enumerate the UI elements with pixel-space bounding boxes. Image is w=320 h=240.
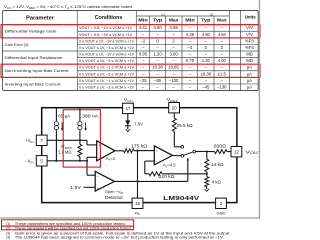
- svg-text:17: 17: [125, 106, 131, 111]
- svg-text:2: 2: [220, 201, 223, 206]
- svg-text:V/V: V/V: [246, 25, 253, 30]
- svg-text:+: +: [156, 149, 158, 153]
- svg-text:4.00: 4.00: [218, 58, 227, 63]
- svg-text:Differential Voltage Gain: Differential Voltage Gain: [5, 29, 57, 34]
- svg-text:Non-Inverting Input Bias Curre: Non-Inverting Input Bias Current: [5, 68, 70, 73]
- svg-text:−65: −65: [154, 78, 162, 83]
- svg-text:µA: µA: [247, 71, 252, 76]
- svg-text:Max: Max: [217, 17, 227, 22]
- svg-text:0 ≤ VOUT ≤ 1V, −1 ≤ VCM ≤ +1V: 0 ≤ VOUT ≤ 1V, −1 ≤ VCM ≤ +1V: [79, 66, 134, 70]
- svg-text:VOUT = 0.5, −3V ≤ VCM ≤ +1V: VOUT = 0.5, −3V ≤ VCM ≤ +1V: [79, 33, 132, 37]
- svg-text:1.20: 1.20: [154, 52, 163, 57]
- svg-text:3.00: 3.00: [170, 52, 179, 57]
- svg-text:220 kΩ: 220 kΩ: [159, 174, 175, 179]
- svg-text:0 ≤ VOUT ≤ 1V, −3 ≤ VCM ≤ +1V: 0 ≤ VOUT ≤ 1V, −3 ≤ VCM ≤ +1V: [79, 59, 134, 63]
- svg-text:5: 5: [40, 159, 43, 164]
- svg-text:−100: −100: [169, 78, 179, 83]
- svg-text:1.5V: 1.5V: [70, 185, 81, 190]
- svg-text:26.5 kΩ: 26.5 kΩ: [177, 123, 193, 128]
- svg-text:MΩ: MΩ: [246, 58, 253, 63]
- svg-text:Inverting Input Bias Current: Inverting Input Bias Current: [5, 81, 62, 86]
- svg-text:0 ≤ VOUT ≤ 1V, −3 ≤ VCM ≤ +1V: 0 ≤ VOUT ≤ 1V, −3 ≤ VCM ≤ +1V: [79, 72, 134, 76]
- svg-text:VOUT = 0.5, −1V ≤ VCM ≤ +1V: VOUT = 0.5, −1V ≤ VCM ≤ +1V: [79, 26, 132, 30]
- svg-text:Differential Input Resistance: Differential Input Resistance: [5, 55, 64, 60]
- svg-text:0 ≤ VOUT ≤ 1V, −3 ≤ VCM ≤ +1V: 0 ≤ VOUT ≤ 1V, −3 ≤ VCM ≤ +1V: [79, 46, 134, 50]
- svg-text:20: 20: [172, 105, 178, 110]
- svg-text:−25: −25: [139, 78, 147, 83]
- svg-text:The LM9044 has been designed t: The LM9044 has been designed to common-m…: [15, 235, 224, 239]
- svg-text:7: 7: [40, 138, 43, 143]
- svg-text:4.50: 4.50: [154, 25, 163, 30]
- svg-text:−: −: [156, 160, 158, 164]
- svg-text:%FS: %FS: [245, 38, 254, 43]
- svg-text:MΩ: MΩ: [246, 52, 253, 57]
- svg-text:VCC = 12V, VREF = 5V, −40°C ≤: VCC = 12V, VREF = 5V, −40°C ≤ TA ≤ 125°C…: [4, 4, 132, 10]
- svg-text:0 ≤ VOUT ≤ 1V, −1V ≤ VCM ≤ +1V: 0 ≤ VOUT ≤ 1V, −1V ≤ VCM ≤ +1V: [79, 39, 134, 43]
- svg-text:7.5V: 7.5V: [134, 122, 143, 127]
- svg-text:Typ: Typ: [201, 17, 211, 22]
- svg-text:1.20: 1.20: [202, 58, 211, 63]
- svg-text:GND: GND: [217, 210, 226, 215]
- svg-text:1.2 MΩ: 1.2 MΩ: [58, 149, 72, 154]
- svg-text:0 ≤ VOUT ≤ 1V, −3 ≤ VCM ≤ +1V: 0 ≤ VOUT ≤ 1V, −3 ≤ VCM ≤ +1V: [79, 85, 134, 89]
- svg-text:µA: µA: [247, 78, 252, 83]
- svg-text:4.59: 4.59: [170, 25, 179, 30]
- svg-text:200Ω: 200Ω: [214, 144, 227, 149]
- svg-text:Detector: Detector: [105, 195, 124, 200]
- svg-text:0 ≤ VOUT ≤ 1V, −1 ≤ VCM ≤ +1V: 0 ≤ VOUT ≤ 1V, −1 ≤ VCM ≤ +1V: [79, 79, 134, 83]
- svg-text:4.41: 4.41: [139, 25, 148, 30]
- svg-text:Gain Error (3): Gain Error (3): [5, 42, 30, 47]
- svg-text:12: 12: [234, 149, 240, 154]
- svg-text:Min: Min: [185, 17, 195, 22]
- svg-text:0.70: 0.70: [186, 58, 195, 63]
- svg-text:0.95: 0.95: [139, 52, 148, 57]
- svg-text:±0.85: ±0.85: [168, 65, 179, 70]
- svg-text:µA: µA: [247, 84, 252, 89]
- svg-text:(2): (2): [210, 12, 214, 16]
- svg-text:Min: Min: [138, 17, 148, 22]
- svg-text:−: −: [97, 175, 99, 179]
- svg-text:−45: −45: [202, 84, 210, 89]
- svg-text:175 kΩ: 175 kΩ: [131, 143, 147, 148]
- svg-text:−2: −2: [141, 38, 146, 43]
- svg-text:%FS: %FS: [245, 45, 254, 50]
- svg-text:4.50: 4.50: [202, 32, 211, 37]
- svg-text:Typ: Typ: [153, 17, 163, 22]
- svg-text:14 kΩ: 14 kΩ: [211, 162, 224, 167]
- svg-text:4.64: 4.64: [218, 32, 227, 37]
- svg-text:0 ≤ VOUT ≤ 1V, −1V ≤ VCM ≤ +1V: 0 ≤ VOUT ≤ 1V, −1V ≤ VCM ≤ +1V: [79, 53, 134, 57]
- svg-text:±0.38: ±0.38: [152, 65, 163, 70]
- svg-text:380 nA: 380 nA: [82, 114, 98, 119]
- svg-text:(1): (1): [161, 12, 165, 16]
- svg-text:4 kΩ: 4 kΩ: [212, 180, 221, 185]
- svg-text:−3: −3: [188, 45, 193, 50]
- svg-text:±1.5: ±1.5: [218, 71, 227, 76]
- svg-text:Units: Units: [245, 15, 256, 21]
- svg-text:±0.38: ±0.38: [201, 71, 212, 76]
- svg-text:+: +: [97, 186, 99, 190]
- svg-text:4.36: 4.36: [186, 32, 195, 37]
- svg-text:LM9044V: LM9044V: [163, 196, 199, 202]
- svg-text:−130: −130: [217, 84, 227, 89]
- svg-text:V/V: V/V: [246, 32, 253, 37]
- svg-text:µA: µA: [247, 65, 252, 70]
- svg-text:Parameter: Parameter: [26, 15, 54, 21]
- svg-text:15: 15: [135, 201, 141, 206]
- svg-text:65 µA: 65 µA: [58, 114, 70, 119]
- svg-text:Conditions: Conditions: [95, 15, 123, 21]
- svg-text:Max: Max: [169, 17, 179, 22]
- svg-text:(4): (4): [6, 235, 10, 239]
